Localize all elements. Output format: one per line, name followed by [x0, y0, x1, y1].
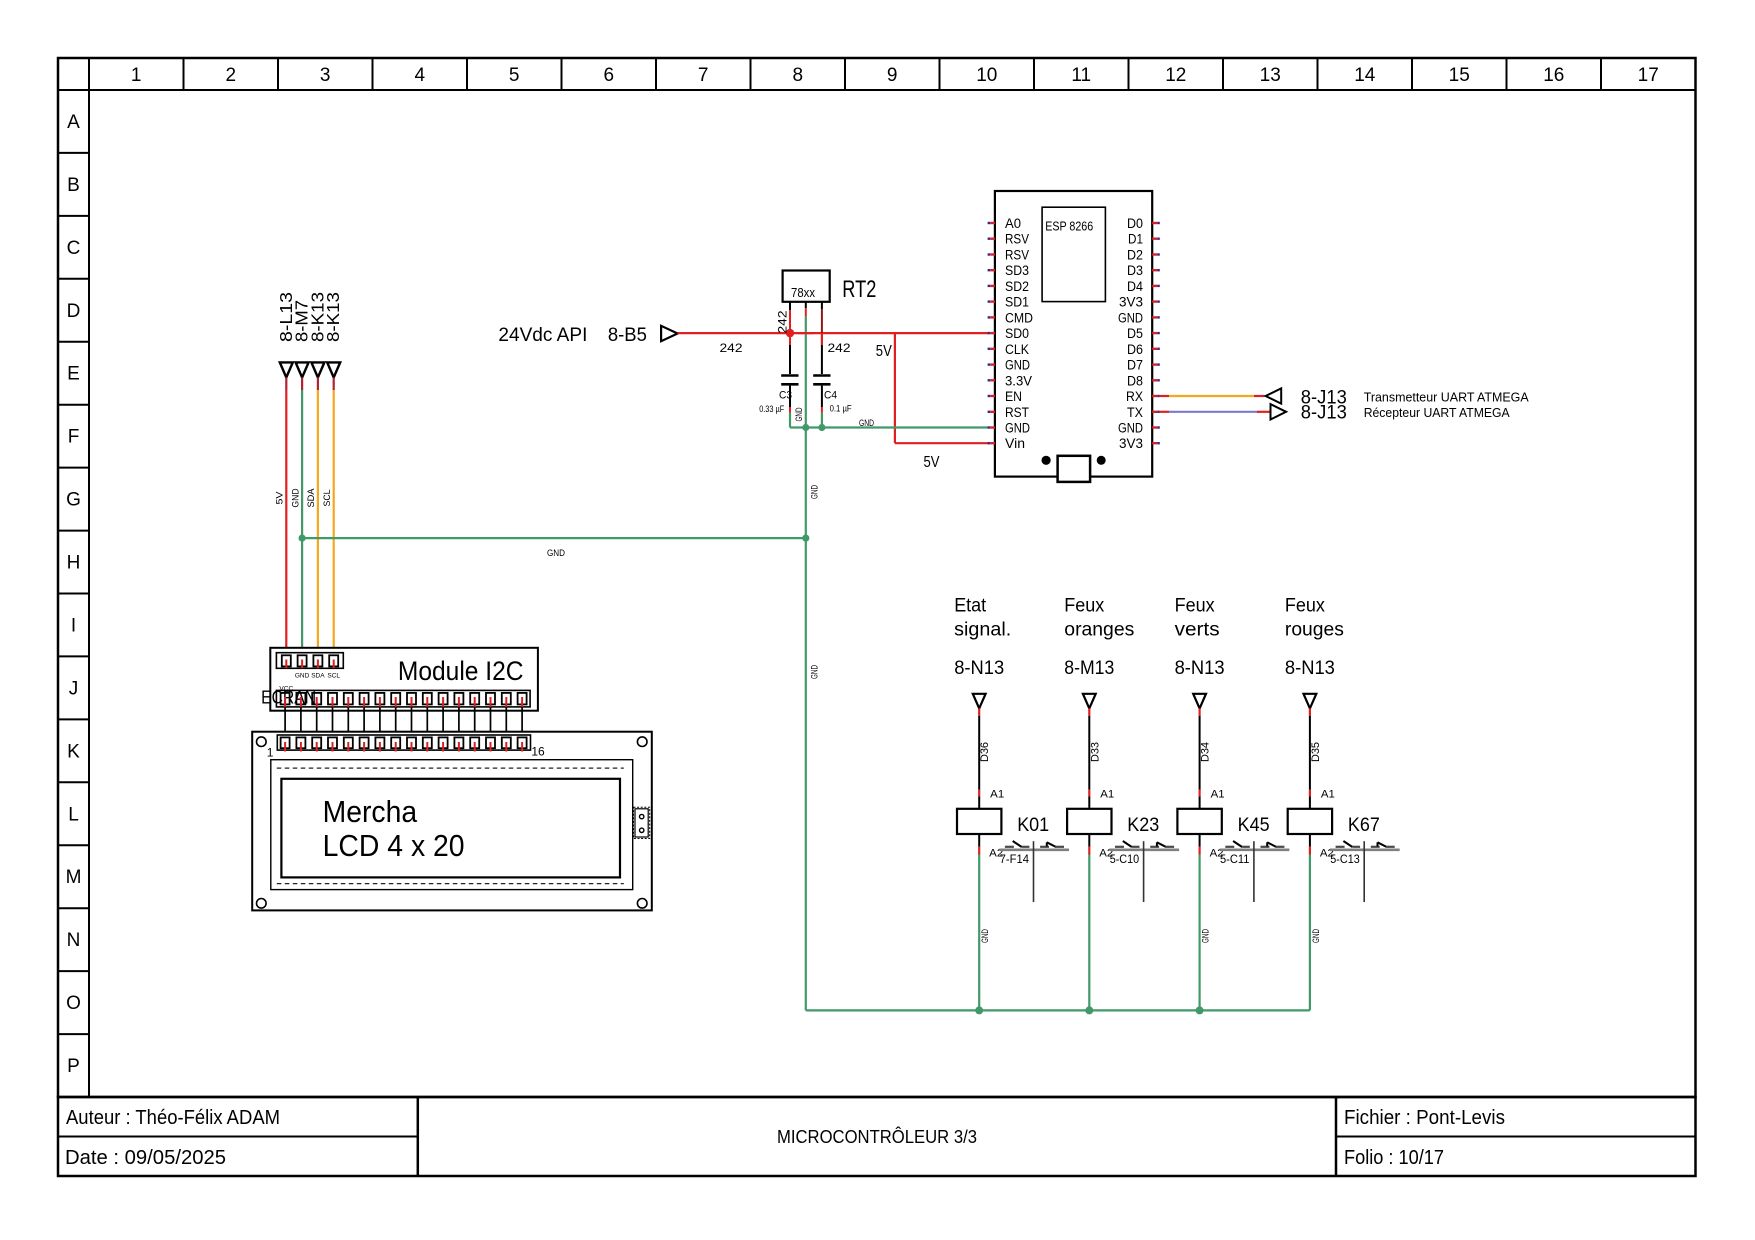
svg-text:verts: verts [1175, 620, 1220, 641]
wire SDA from 8-K13 to module I2C pin 3 [306, 378, 318, 661]
svg-text:K23: K23 [1127, 815, 1159, 836]
auxiliary contact 5-C13 of K67 [1330, 841, 1400, 902]
relay coil K01 [957, 809, 1049, 836]
module I2C [270, 648, 538, 711]
node GND junction (C4) [818, 424, 825, 431]
LCD 16-pin header [267, 735, 545, 760]
svg-text:SD2: SD2 [1005, 279, 1029, 294]
svg-text:I: I [71, 616, 76, 637]
header label Etat signal. [954, 596, 1011, 641]
svg-text:Auteur : Théo-Félix ADAM: Auteur : Théo-Félix ADAM [66, 1107, 280, 1129]
wire D34 connector to coil A1 [1200, 708, 1225, 808]
svg-text:D34: D34 [1200, 742, 1212, 762]
svg-text:GND: GND [794, 407, 805, 421]
svg-text:8-B5: 8-B5 [608, 325, 647, 346]
svg-text:SD1: SD1 [1005, 295, 1029, 310]
svg-text:J: J [69, 678, 79, 699]
svg-text:7-F14: 7-F14 [1000, 852, 1030, 866]
svg-text:Feux: Feux [1064, 596, 1104, 617]
svg-text:0.1 µF: 0.1 µF [830, 404, 852, 414]
wire D35 connector to coil A1 [1310, 708, 1335, 808]
svg-text:A1: A1 [1211, 788, 1225, 800]
node 242 junction at regulator input [786, 329, 794, 337]
ESP USB connector [1042, 456, 1106, 482]
relay coil K67 [1288, 809, 1380, 836]
svg-text:D5: D5 [1127, 326, 1143, 341]
svg-text:6: 6 [604, 65, 615, 86]
svg-text:10: 10 [976, 65, 997, 86]
wire 5V from 8-L13 to module I2C pin 1 [275, 378, 287, 661]
svg-text:D33: D33 [1089, 742, 1101, 762]
svg-text:5V: 5V [275, 491, 286, 505]
off-page connector 8-N13 [954, 658, 1004, 708]
ESP 8266 module U1 [995, 191, 1152, 477]
svg-text:RSV: RSV [1005, 232, 1029, 247]
wire coil A2 to GND bus [1200, 834, 1224, 1010]
svg-text:Feux: Feux [1285, 596, 1325, 617]
svg-text:3: 3 [320, 65, 331, 86]
svg-text:D4: D4 [1127, 279, 1143, 294]
svg-text:GND: GND [859, 418, 874, 429]
svg-text:GND: GND [809, 485, 820, 499]
svg-text:12: 12 [1165, 65, 1186, 86]
svg-text:GND: GND [295, 673, 310, 680]
svg-text:P: P [67, 1056, 80, 1077]
svg-text:Fichier : Pont-Levis: Fichier : Pont-Levis [1344, 1107, 1505, 1129]
svg-text:D3: D3 [1127, 263, 1143, 278]
wire TX to 8-J13 (violet) [1160, 404, 1286, 419]
svg-text:GND: GND [1005, 358, 1030, 373]
svg-text:SD3: SD3 [1005, 263, 1029, 278]
capacitor C3 0.33 uF [759, 333, 798, 414]
svg-text:D35: D35 [1310, 742, 1322, 762]
wire D36 connector to coil A1 [979, 708, 1004, 808]
svg-text:GND: GND [1118, 310, 1143, 325]
svg-text:5-C11: 5-C11 [1220, 852, 1250, 866]
svg-text:8-N13: 8-N13 [1175, 658, 1225, 679]
svg-text:1: 1 [131, 65, 142, 86]
svg-text:SCL: SCL [322, 490, 333, 507]
svg-text:Date : 09/05/2025: Date : 09/05/2025 [65, 1147, 226, 1169]
svg-text:SCL: SCL [327, 673, 340, 680]
svg-text:SDA: SDA [306, 488, 317, 508]
wire coil A2 to GND bus [1310, 834, 1334, 1010]
svg-text:0.33 µF: 0.33 µF [759, 404, 784, 414]
svg-text:Mercha: Mercha [323, 794, 418, 829]
svg-text:C: C [67, 238, 81, 259]
header label Feux rouges [1285, 596, 1344, 641]
RT2 input pin (242) [776, 302, 791, 334]
svg-text:K: K [67, 741, 80, 762]
svg-text:11: 11 [1071, 65, 1091, 86]
svg-text:B: B [67, 175, 80, 196]
svg-text:3V3: 3V3 [1119, 295, 1143, 310]
LCD module ECRAN (Mercha LCD 4 x 20) [252, 732, 652, 911]
svg-text:RSV: RSV [1005, 248, 1029, 263]
svg-text:GND: GND [1118, 421, 1143, 436]
svg-text:GND: GND [809, 665, 820, 679]
svg-text:A1: A1 [1321, 788, 1335, 800]
svg-text:8-N13: 8-N13 [954, 658, 1004, 679]
svg-text:D8: D8 [1127, 373, 1143, 388]
wires module I2C to LCD (16) [285, 707, 522, 740]
svg-text:242: 242 [776, 310, 790, 333]
svg-text:D6: D6 [1127, 342, 1143, 357]
wire coil A2 to GND bus [1089, 834, 1113, 1010]
svg-text:13: 13 [1260, 65, 1281, 86]
svg-text:D2: D2 [1127, 248, 1143, 263]
wire 242 over crossing [798, 332, 814, 334]
svg-text:F: F [68, 427, 80, 448]
off-page connector 8-N13 [1175, 658, 1225, 708]
relay coil K23 [1067, 809, 1159, 836]
svg-text:GND: GND [547, 548, 565, 559]
wire GND from 8-M7 to module I2C pin 2 [290, 378, 302, 661]
svg-text:Etat: Etat [954, 596, 987, 617]
capacitor C4 0.1 uF [813, 345, 852, 414]
wire D33 connector to coil A1 [1089, 708, 1114, 808]
svg-text:RT2: RT2 [842, 276, 876, 303]
svg-text:C4: C4 [824, 390, 837, 402]
node GND junction (C3) [802, 424, 809, 431]
svg-text:5-C13: 5-C13 [1330, 852, 1360, 866]
voltage regulator RT2 (78xx) [783, 271, 877, 304]
svg-text:CLK: CLK [1005, 342, 1029, 357]
svg-text:D1: D1 [1128, 232, 1143, 247]
svg-text:Récepteur UART ATMEGA: Récepteur UART ATMEGA [1364, 406, 1511, 420]
wire GND C4 corner [821, 413, 823, 428]
svg-text:7: 7 [698, 65, 709, 86]
svg-text:2: 2 [226, 65, 237, 86]
header label Feux oranges [1064, 596, 1134, 641]
svg-text:A0: A0 [1005, 216, 1021, 231]
svg-text:GND: GND [1201, 929, 1212, 943]
off-page connector 8-M13 [1064, 658, 1114, 708]
svg-text:8-N13: 8-N13 [1285, 658, 1335, 679]
node GND junction at main vertical [802, 535, 809, 542]
svg-text:8-J13: 8-J13 [1301, 403, 1347, 424]
svg-text:RX: RX [1126, 389, 1143, 404]
svg-text:Module I2C: Module I2C [398, 656, 524, 686]
svg-text:oranges: oranges [1064, 620, 1134, 641]
svg-text:E: E [67, 364, 80, 385]
svg-text:3.3V: 3.3V [1005, 373, 1032, 388]
svg-text:EN: EN [1005, 389, 1022, 404]
node GND bus junction K01 [975, 1006, 983, 1014]
svg-text:A: A [67, 112, 80, 133]
svg-text:GND: GND [1005, 421, 1030, 436]
off-page connector 24Vdc API 8-B5 [498, 325, 677, 346]
svg-text:G: G [66, 490, 81, 511]
svg-text:A1: A1 [990, 788, 1004, 800]
svg-text:24Vdc API: 24Vdc API [498, 325, 587, 346]
off-page connector 8-K13 (SCL) [323, 292, 343, 378]
svg-text:K45: K45 [1238, 815, 1270, 836]
svg-text:78xx: 78xx [791, 285, 815, 300]
main GND vertical wire [794, 317, 821, 1011]
svg-text:ESP 8266: ESP 8266 [1045, 220, 1093, 234]
off-page connector 8-N13 [1285, 658, 1335, 708]
svg-text:Folio : 10/17: Folio : 10/17 [1344, 1147, 1444, 1169]
svg-text:8: 8 [793, 65, 804, 86]
svg-text:D7: D7 [1127, 358, 1143, 373]
svg-text:RST: RST [1005, 405, 1029, 420]
auxiliary contact 5-C10 of K23 [1109, 841, 1179, 902]
svg-text:15: 15 [1449, 65, 1470, 86]
wire RX to 8-J13 (orange) [1160, 388, 1281, 403]
wire SCL from 8-K13 to module I2C pin 4 [322, 378, 334, 661]
svg-text:8-K13: 8-K13 [323, 292, 343, 342]
node GND bus junction K45 [1196, 1006, 1204, 1014]
svg-text:5V: 5V [924, 454, 940, 471]
svg-text:D36: D36 [979, 742, 991, 762]
svg-text:8-M13: 8-M13 [1064, 658, 1114, 679]
svg-text:4: 4 [415, 65, 426, 86]
RT2 ground pin [805, 302, 807, 317]
svg-text:LCD 4 x 20: LCD 4 x 20 [323, 828, 465, 863]
svg-text:C3: C3 [779, 390, 792, 402]
svg-text:242: 242 [828, 341, 851, 355]
relay coil K45 [1177, 809, 1269, 836]
svg-text:CMD: CMD [1005, 310, 1033, 325]
svg-text:SDA: SDA [311, 673, 325, 680]
off-page connector 8-K13 (SDA) [307, 292, 327, 378]
svg-text:K01: K01 [1017, 815, 1049, 836]
svg-text:9: 9 [887, 65, 898, 86]
svg-text:A1: A1 [1100, 788, 1114, 800]
I2C 16-pin header [276, 690, 530, 707]
svg-text:GND: GND [290, 488, 301, 507]
ESP right pins [1118, 216, 1160, 451]
svg-text:3V3: 3V3 [1119, 436, 1143, 451]
LCD side connector [634, 807, 650, 838]
svg-text:H: H [67, 553, 81, 574]
svg-text:O: O [66, 993, 81, 1014]
wire 242 : 24Vdc to regulator input and ESP SD0 [678, 333, 988, 355]
svg-text:L: L [68, 804, 79, 825]
svg-text:TX: TX [1127, 405, 1143, 420]
wire coil A2 to GND bus [979, 834, 1003, 1010]
ESP left pins [988, 216, 1034, 451]
svg-text:5-C10: 5-C10 [1110, 852, 1140, 866]
svg-text:Transmetteur UART ATMEGA: Transmetteur UART ATMEGA [1364, 391, 1530, 405]
svg-text:MICROCONTRÔLEUR 3/3: MICROCONTRÔLEUR 3/3 [777, 1126, 977, 1147]
node GND junction at I2C GND wire [299, 535, 306, 542]
off-page connector 8-M7 (GND) [292, 300, 312, 378]
svg-text:M: M [66, 867, 82, 888]
wire GND horizontal (LCD column to main GND vertical) [302, 538, 806, 559]
node GND bus junction K23 [1085, 1006, 1093, 1014]
svg-text:D: D [67, 301, 81, 322]
svg-text:Vin: Vin [1005, 436, 1025, 451]
wire 5V branch to ESP Vin [876, 333, 988, 471]
svg-text:rouges: rouges [1285, 620, 1344, 641]
svg-text:16: 16 [1543, 65, 1564, 86]
off-page connector 8-L13 (5V) [276, 292, 296, 378]
header label Feux verts [1175, 596, 1220, 641]
auxiliary contact 5-C11 of K45 [1220, 841, 1290, 902]
svg-text:14: 14 [1354, 65, 1376, 86]
svg-text:SD0: SD0 [1005, 326, 1029, 341]
svg-text:17: 17 [1638, 65, 1659, 86]
wire GND bus under relays [806, 1009, 1310, 1011]
svg-text:N: N [67, 930, 81, 951]
svg-text:5: 5 [509, 65, 520, 86]
wire GND caps to ESP GND [790, 413, 988, 429]
RT2 output pin (5V) [821, 302, 823, 345]
svg-text:1: 1 [267, 746, 274, 760]
LCD screen bezel [271, 760, 633, 890]
I2C 4-pin header (VCC GND SDA SCL) [276, 653, 343, 693]
LCD mounting holes [257, 737, 648, 908]
auxiliary contact 7-F14 of K01 [999, 841, 1069, 902]
svg-text:D0: D0 [1127, 216, 1143, 231]
svg-text:GND: GND [1311, 929, 1322, 943]
svg-text:K67: K67 [1348, 815, 1380, 836]
svg-text:5V: 5V [876, 343, 892, 360]
svg-text:16: 16 [531, 745, 545, 759]
svg-text:242: 242 [720, 341, 743, 355]
svg-text:Feux: Feux [1175, 596, 1215, 617]
svg-text:GND: GND [980, 929, 991, 943]
svg-text:signal.: signal. [954, 620, 1011, 641]
